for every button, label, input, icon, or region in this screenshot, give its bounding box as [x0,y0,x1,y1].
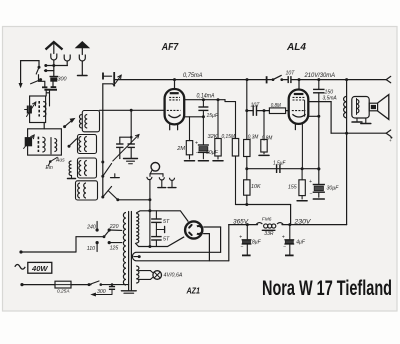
svg-text:+: + [195,141,198,147]
svg-text:240: 240 [86,224,96,230]
svg-text:10T: 10T [251,103,261,109]
svg-text:155: 155 [288,184,297,190]
svg-text:−: − [241,244,244,250]
svg-text:0,14mA: 0,14mA [197,94,215,100]
svg-text:300: 300 [58,77,67,83]
svg-text:40W: 40W [31,264,48,273]
svg-text:3,5mA: 3,5mA [323,95,337,101]
svg-text:−: − [196,150,199,156]
svg-text:0,8M: 0,8M [271,103,282,109]
svg-text:0,25A: 0,25A [57,289,70,295]
svg-text:Ein: Ein [46,165,53,171]
svg-text:−: − [283,244,286,250]
svg-text:Nora W 17 Tiefland: Nora W 17 Tiefland [262,276,392,300]
svg-text:5T: 5T [163,237,170,243]
svg-text:+: + [282,235,285,241]
svg-text:2M: 2M [176,146,185,152]
svg-text:15µF: 15µF [207,113,219,119]
svg-text:AZ1: AZ1 [186,287,201,296]
svg-text:4µF: 4µF [296,240,306,246]
svg-text:FM6: FM6 [262,217,272,223]
svg-text:0,15M: 0,15M [222,134,236,140]
svg-text:300: 300 [97,289,106,295]
svg-text:30µF: 30µF [327,186,340,192]
svg-text:33R: 33R [264,231,274,237]
svg-text:4V/0,6A: 4V/0,6A [164,273,184,279]
svg-text:+: + [389,138,392,143]
svg-text:+: + [309,179,312,185]
svg-text:8µF: 8µF [252,240,262,246]
svg-text:10K: 10K [251,184,261,190]
svg-text:0,8M: 0,8M [262,135,273,141]
svg-text:−: − [310,192,313,198]
svg-text:5T: 5T [163,219,170,225]
svg-text:50µF: 50µF [206,150,219,156]
svg-text:150: 150 [325,89,334,95]
svg-text:0,3M: 0,3M [248,134,259,140]
svg-text:110: 110 [87,246,95,252]
svg-text:220: 220 [109,224,119,230]
svg-text:230V: 230V [293,220,311,226]
svg-text:125: 125 [110,245,119,251]
svg-text:0,75mA: 0,75mA [183,72,203,79]
svg-text:AL4: AL4 [286,42,306,53]
svg-text:210V/30mA: 210V/30mA [304,72,335,79]
svg-text:AF7: AF7 [161,42,179,53]
svg-text:32K: 32K [208,134,218,140]
svg-text:Aus: Aus [55,157,65,163]
svg-text:1,5µF: 1,5µF [273,161,286,167]
svg-text:10T: 10T [286,71,296,77]
svg-text:+: + [239,235,242,241]
